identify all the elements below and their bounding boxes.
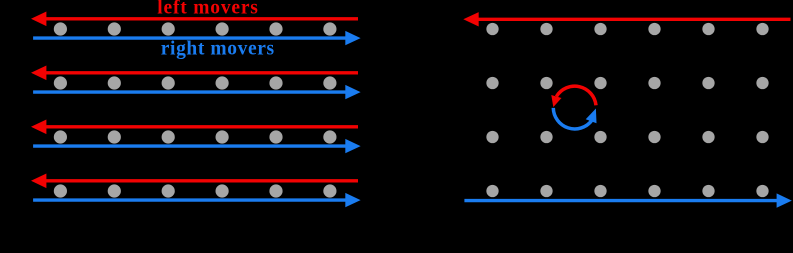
wire row 3 (31, 120, 361, 154)
right panel: top chiral edge (red, leftward) (477, 18, 791, 21)
svg-text:left movers: left movers (157, 0, 258, 19)
svg-text:right movers: right movers (161, 38, 275, 59)
wire row 2 (31, 66, 361, 100)
right panel: bottom chiral edge (blue, rightward) (464, 199, 777, 202)
circulating plaquette current: blue bottom arc (553, 108, 596, 129)
wire row 1 (31, 12, 361, 46)
wire row 4 (31, 174, 361, 208)
lattice of gray sites (486, 23, 768, 197)
circulating plaquette current: red top arc (551, 86, 596, 107)
